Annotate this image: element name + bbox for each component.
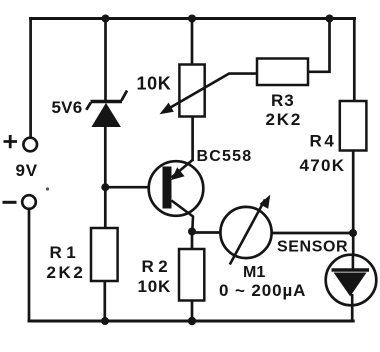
svg-text:10K: 10K [137, 74, 172, 94]
svg-text:BC558: BC558 [197, 148, 253, 165]
resistor R4 470K [300, 101, 367, 175]
wire top rail [31, 17, 355, 20]
node top pot [188, 15, 196, 23]
svg-text:10K: 10K [138, 277, 172, 296]
wire R2 bottom [191, 301, 194, 322]
wire R2 top [191, 232, 194, 250]
node collector junction [188, 228, 196, 236]
potentiometer wiper arrowhead [160, 103, 174, 115]
potentiometer wiper (crosses box) [164, 74, 258, 112]
svg-text:0 ~ 200µA: 0 ~ 200µA [219, 281, 306, 300]
wire left bottom (- feed) [28, 210, 31, 322]
sensor diode D1 [277, 239, 376, 307]
svg-text:5V6: 5V6 [52, 98, 83, 117]
wire R1 to bottom rail [103, 281, 106, 321]
wire pot bottom to emitter [191, 117, 194, 160]
wire R3 right to top rail [308, 19, 330, 72]
battery + terminal [4, 135, 38, 151]
wire right drop to R4 [353, 19, 356, 102]
wire zener drop from rail [104, 19, 107, 102]
wire zener to R1 [104, 126, 107, 228]
resistor R3 2K2 [257, 59, 308, 130]
wire meter to sensor (SENSOR net) [272, 232, 354, 235]
svg-text:R4: R4 [310, 132, 337, 151]
svg-text:2K2: 2K2 [266, 110, 303, 129]
transistor Q1 BC558 (PNP) [149, 148, 253, 232]
svg-text:R1: R1 [50, 243, 81, 262]
node bottom R1 [101, 317, 109, 325]
node top R3 [326, 15, 334, 23]
wire base (node to transistor) [105, 186, 162, 189]
svg-text:M1: M1 [243, 264, 265, 281]
svg-text:470K: 470K [300, 156, 346, 175]
wire collector to meter [192, 231, 221, 234]
resistor R1 2K2 [47, 228, 118, 282]
wire bottom rail [29, 320, 353, 323]
svg-text:9V: 9V [16, 161, 38, 180]
resistor R2 10K [138, 249, 205, 301]
node top zener [102, 15, 110, 23]
node sensor top [349, 229, 357, 237]
wire left top (+ feed) [29, 19, 32, 138]
potentiometer 10K (box) [137, 65, 205, 117]
svg-text:R3: R3 [271, 91, 295, 110]
meter M1 [219, 195, 306, 300]
svg-text:SENSOR: SENSOR [277, 239, 348, 256]
battery - terminal [3, 195, 36, 209]
svg-text:R2: R2 [142, 257, 173, 276]
svg-text:2K2: 2K2 [47, 263, 86, 282]
zener diode 5V6 [52, 91, 128, 127]
node bottom R2 [188, 317, 196, 325]
node base tap [101, 183, 109, 191]
wire pot top [191, 19, 194, 65]
wire R4 to sensor branch [352, 151, 355, 270]
